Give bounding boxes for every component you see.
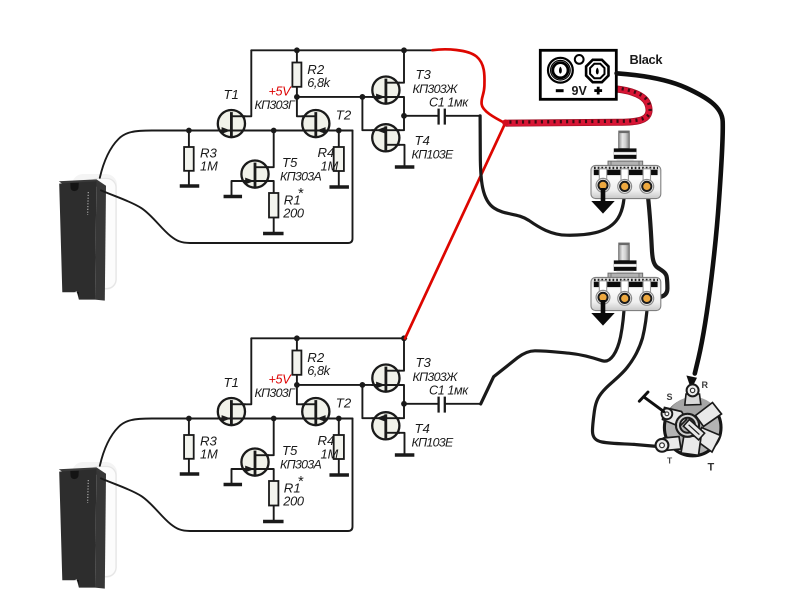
wire pickup P2 hot lead to gate line bbox=[100, 419, 353, 466]
resistor R3 (ch1) bbox=[184, 147, 194, 171]
wire T3 source / T4 drain (ch1) bbox=[386, 97, 404, 130]
jack R neck bbox=[685, 394, 701, 405]
svg-text:1M: 1M bbox=[200, 447, 218, 462]
wire R3 stems (ch2) bbox=[188, 419, 190, 473]
svg-text:+5V: +5V bbox=[269, 85, 293, 99]
resistor R3 (ch2) bbox=[184, 435, 194, 459]
svg-text:КП303Ж: КП303Ж bbox=[413, 82, 458, 96]
svg-text:КП303Ж: КП303Ж bbox=[413, 370, 458, 384]
jack S lug bbox=[662, 408, 673, 419]
transistor T4 (ch1) bbox=[371, 124, 400, 151]
transistor T2 (ch1) bbox=[301, 110, 330, 137]
wire VR1 right lug to VR2 right lug bbox=[647, 190, 667, 298]
svg-text:T: T bbox=[667, 456, 673, 466]
svg-text:КП303А: КП303А bbox=[280, 169, 321, 183]
svg-text:S: S bbox=[667, 392, 673, 402]
svg-text:+5V: +5V bbox=[269, 373, 293, 387]
wire T5 source to R1 (ch1) bbox=[255, 181, 274, 193]
potentiometer VR2 washer bbox=[608, 273, 643, 277]
wire R2 bottom to T2 drain (ch1) bbox=[297, 87, 316, 117]
node T5-line ch2 bbox=[271, 416, 277, 422]
transistor T1 (ch1) bbox=[217, 110, 246, 137]
wire T5 drain to signal line (ch2) bbox=[255, 419, 274, 456]
ground (T4 source ch1) bbox=[395, 165, 415, 168]
resistor R2 (ch1) bbox=[292, 63, 301, 87]
jack T plate (lower-left) bbox=[664, 437, 682, 451]
wire T1 drain to rail (ch1) bbox=[231, 50, 251, 116]
node R2-bus ch2 bbox=[294, 382, 300, 388]
potentiometer VR2 lug 1 bbox=[596, 281, 610, 304]
jack R lug bbox=[687, 384, 699, 396]
resistor R2 (ch2) bbox=[292, 351, 301, 375]
wire bottom C1 output to VR2 middle lug bbox=[481, 302, 625, 404]
svg-text:6,8k: 6,8k bbox=[307, 75, 330, 90]
potentiometer VR1 washer bbox=[608, 161, 643, 165]
potentiometer VR2 lug 3 bbox=[640, 281, 654, 306]
node R2-bus ch1 bbox=[294, 94, 300, 100]
wire red supply to bottom rail bbox=[405, 123, 505, 338]
svg-text:T5: T5 bbox=[282, 443, 298, 458]
capacitor C1 (ch1) bbox=[439, 109, 445, 125]
svg-text:C1 1мк: C1 1мк bbox=[429, 384, 469, 398]
transistor T5 (ch2) bbox=[241, 449, 270, 476]
potentiometer VR2 shaft bbox=[619, 243, 630, 261]
wire T4 source to ground (ch1) bbox=[386, 145, 405, 165]
wire T3 drain to rail (ch2) bbox=[386, 338, 404, 370]
wire T5 gate to ground (ch1) bbox=[232, 181, 255, 195]
svg-text:КП303Г: КП303Г bbox=[255, 386, 296, 400]
node output ch2 bbox=[401, 401, 407, 407]
jack upper-right blade bbox=[696, 403, 722, 427]
node rail-T3 ch1 bbox=[401, 47, 407, 53]
wire R3 stems (ch1) bbox=[188, 131, 190, 185]
node output ch1 bbox=[401, 113, 407, 119]
jack bottom blade bbox=[681, 435, 701, 455]
wire jack S stub lead bbox=[644, 397, 664, 411]
svg-text:R: R bbox=[702, 380, 709, 390]
resistor R4 (ch1) bbox=[334, 147, 344, 171]
svg-text:1M: 1M bbox=[321, 158, 339, 173]
wire red supply to top rail bbox=[433, 49, 506, 123]
ground arrow of VR1 (left lug) bbox=[591, 188, 614, 214]
transistor T1 (ch2) bbox=[217, 398, 246, 425]
potentiometer VR1 bushing nut bbox=[614, 148, 637, 161]
svg-text:T3: T3 bbox=[416, 355, 432, 370]
jack top dark wedge bbox=[668, 397, 718, 421]
battery connector box (9V) bbox=[540, 50, 616, 99]
svg-text:КП103Е: КП103Е bbox=[412, 147, 454, 161]
wire top C1 output to VR1 middle lug bbox=[480, 116, 624, 235]
transistor T3 (ch1) bbox=[372, 77, 401, 104]
svg-text:6,8k: 6,8k bbox=[307, 363, 330, 378]
potentiometer VR2 lug 2 bbox=[618, 281, 632, 306]
resistor R1 (ch1) bbox=[269, 193, 278, 218]
pickup P1 (black humbucker) bbox=[59, 174, 117, 301]
resistor R1 (ch2) bbox=[269, 481, 278, 506]
label minus bbox=[556, 89, 564, 92]
jack S plate (upper-left blade) bbox=[663, 408, 687, 427]
jack tip contact blade (diagonal through ring) bbox=[683, 419, 704, 439]
wire T1 drain to rail (ch2) bbox=[231, 338, 251, 404]
wire R2 top stem (ch1) bbox=[296, 50, 298, 62]
svg-text:КП103Е: КП103Е bbox=[412, 435, 454, 449]
svg-text:T2: T2 bbox=[336, 395, 352, 410]
wire R4 stems (ch2) bbox=[338, 419, 340, 474]
wire pickup P2 return lead + feedback loop bbox=[101, 419, 353, 532]
potentiometer VR2 body bbox=[591, 277, 661, 310]
wire gate bus T3-T4 (ch2) bbox=[362, 385, 385, 418]
wire black battery wire to jack ring bbox=[617, 73, 723, 373]
wire R1 bottom stem (ch2) bbox=[273, 506, 275, 521]
wire T5 drain to signal line (ch1) bbox=[255, 131, 274, 168]
svg-text:T2: T2 bbox=[336, 107, 352, 122]
label plus bbox=[594, 87, 602, 95]
wire R2 top stem (ch2) bbox=[296, 338, 298, 350]
jack lower-right blade bbox=[697, 428, 721, 453]
svg-text:1M: 1M bbox=[321, 446, 339, 461]
svg-text:200: 200 bbox=[282, 494, 305, 509]
potentiometer VR1 shaft bbox=[619, 131, 630, 149]
wire T3 drain to rail (ch1) bbox=[386, 50, 404, 82]
svg-text:T1: T1 bbox=[224, 87, 239, 102]
potentiometer VR1 lug 2 bbox=[618, 169, 632, 194]
svg-text:T3: T3 bbox=[416, 67, 432, 82]
transistor T4 (ch2) bbox=[371, 412, 400, 439]
wire R2 bottom to gate bus (ch2) bbox=[297, 384, 386, 386]
wire R1 bottom stem (ch1) bbox=[273, 218, 275, 233]
ground (R4 ch1) bbox=[329, 185, 349, 188]
jack S stub crossbar bbox=[639, 392, 648, 401]
output jack body bbox=[664, 399, 721, 456]
wire output node to C1 (ch2) bbox=[404, 403, 438, 405]
wire supply rail (ch2) bbox=[251, 337, 406, 339]
wire R2 bottom to T2 drain (ch2) bbox=[297, 375, 316, 405]
wire T4 source to ground (ch2) bbox=[386, 433, 405, 453]
node T5-line ch1 bbox=[271, 128, 277, 134]
arrowhead into jack R lug bbox=[686, 376, 697, 390]
ground arrow of VR2 (left lug) bbox=[591, 300, 614, 326]
svg-text:1M: 1M bbox=[200, 159, 218, 174]
wire T3 source / T4 drain (ch2) bbox=[386, 385, 404, 418]
svg-text:T4: T4 bbox=[415, 133, 430, 148]
svg-text:T1: T1 bbox=[224, 375, 239, 390]
node R4-line ch1 bbox=[336, 128, 342, 134]
node gatebus ch2 bbox=[360, 382, 366, 388]
node red supply junction bbox=[502, 120, 508, 126]
node rail-T3 ch2 bbox=[401, 335, 407, 341]
svg-text:КП303Г: КП303Г bbox=[255, 98, 296, 112]
node R4-line ch2 bbox=[336, 416, 342, 422]
jack T lug bbox=[656, 439, 669, 452]
resistor R4 (ch2) bbox=[334, 435, 344, 459]
svg-text:КП303А: КП303А bbox=[280, 457, 321, 471]
node gatebus ch1 bbox=[360, 94, 366, 100]
svg-text:T: T bbox=[708, 462, 715, 474]
ground (T5 gate ch2) bbox=[224, 483, 243, 486]
svg-text:9V: 9V bbox=[572, 84, 588, 98]
ground (R3 ch1) bbox=[180, 184, 200, 187]
twisted battery wire (red/black pair) bbox=[506, 88, 651, 123]
svg-text:Black: Black bbox=[630, 52, 664, 67]
wire T5 source to R1 (ch2) bbox=[255, 469, 274, 481]
svg-text:200: 200 bbox=[282, 206, 305, 221]
ground (T4 source ch2) bbox=[395, 453, 415, 456]
wire T5 gate to ground (ch2) bbox=[232, 469, 255, 483]
transistor T5 (ch1) bbox=[241, 161, 270, 188]
svg-text:C1 1мк: C1 1мк bbox=[429, 96, 469, 110]
transistor T3 (ch2) bbox=[372, 365, 401, 392]
ground (R3 ch2) bbox=[180, 472, 200, 475]
wire output node to C1 (ch1) bbox=[404, 115, 438, 117]
ground (R1 ch1) bbox=[263, 232, 284, 235]
ground (R4 ch2) bbox=[329, 473, 349, 476]
node rail-R2 ch2 bbox=[294, 335, 300, 341]
wire C1 output lead (ch1) bbox=[446, 115, 480, 117]
potentiometer VR1 body bbox=[591, 165, 661, 198]
ground (T5 gate ch1) bbox=[224, 195, 243, 198]
transistor T2 (ch2) bbox=[301, 398, 330, 425]
jack bushing ring bbox=[676, 414, 699, 437]
wire gate bus T3-T4 (ch1) bbox=[362, 97, 385, 130]
potentiometer VR1 lug 1 bbox=[596, 169, 610, 192]
node R3-line ch1 bbox=[186, 128, 192, 134]
battery plus terminal (octagon snap) bbox=[586, 60, 608, 82]
node rail-R2 ch1 bbox=[294, 47, 300, 53]
svg-text:T5: T5 bbox=[282, 155, 298, 170]
wire pickup P1 return lead + feedback loop bbox=[101, 131, 353, 244]
pickup P2 (black humbucker) bbox=[59, 462, 117, 589]
capacitor C1 (ch2) bbox=[439, 397, 445, 413]
wire R2 bottom to gate bus (ch1) bbox=[297, 96, 386, 98]
battery clip small hole bbox=[575, 55, 584, 64]
wire VR2 right lug to jack tip bbox=[592, 302, 656, 446]
node R3-line ch2 bbox=[186, 416, 192, 422]
potentiometer VR2 bushing nut bbox=[614, 260, 637, 273]
wire pickup P1 hot lead to gate line bbox=[100, 131, 353, 178]
wire R4 stems (ch1) bbox=[338, 131, 340, 186]
wire supply rail (ch1) bbox=[251, 49, 433, 51]
potentiometer VR1 lug 3 bbox=[640, 169, 654, 194]
svg-text:T4: T4 bbox=[415, 421, 430, 436]
wire C1 output lead (ch2) bbox=[446, 403, 480, 405]
battery minus terminal (barrel) bbox=[548, 58, 573, 83]
ground (R1 ch2) bbox=[263, 520, 284, 523]
